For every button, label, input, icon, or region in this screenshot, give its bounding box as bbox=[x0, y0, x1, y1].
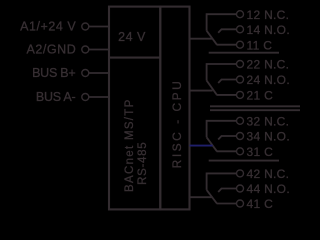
terminal 21 circle bbox=[237, 91, 244, 98]
svg-text:42 N.C.: 42 N.C. bbox=[247, 167, 290, 181]
terminal BUS A- circle bbox=[82, 94, 89, 101]
wire 21 C bbox=[217, 94, 237, 96]
svg-text:21 C: 21 C bbox=[247, 89, 274, 103]
switch arm K2 bbox=[207, 81, 217, 95]
terminal 31 circle bbox=[237, 148, 244, 155]
wire 31 C bbox=[217, 150, 237, 152]
wire drive K4 from CPU bbox=[190, 196, 213, 198]
svg-text:44 N.O.: 44 N.O. bbox=[247, 182, 290, 196]
svg-text:BUS A-: BUS A- bbox=[36, 90, 76, 104]
svg-text:12 N.C.: 12 N.C. bbox=[247, 8, 290, 22]
wire 11 C bbox=[217, 44, 237, 46]
terminal A2 circle bbox=[82, 46, 89, 53]
svg-text:BACnet MS/TP: BACnet MS/TP bbox=[124, 98, 136, 192]
terminal 34 circle bbox=[237, 133, 244, 140]
terminal 24 circle bbox=[237, 76, 244, 83]
terminal BUS B+ circle bbox=[82, 70, 89, 77]
wire drive K2 from CPU bbox=[190, 90, 213, 92]
terminal 41 circle bbox=[237, 200, 244, 207]
switch arm K3 bbox=[207, 137, 217, 151]
svg-text:24 V: 24 V bbox=[118, 30, 146, 44]
box U1 BACnet MS/TP RS-485 module outline bbox=[109, 7, 160, 210]
svg-text:11 C: 11 C bbox=[247, 38, 273, 52]
wire 14 N.O. with tick bbox=[218, 29, 236, 33]
svg-text:32 N.C.: 32 N.C. bbox=[247, 114, 290, 128]
wire A2 to box bbox=[89, 49, 109, 51]
svg-text:BUS B+: BUS B+ bbox=[32, 66, 75, 80]
switch arm K1 bbox=[207, 31, 217, 45]
wire BUS A- to box bbox=[89, 96, 109, 98]
terminal 11 circle bbox=[237, 41, 244, 48]
svg-text:RISC - CPU: RISC - CPU bbox=[170, 79, 184, 169]
terminal 42 circle bbox=[237, 170, 244, 177]
switch arm K4 bbox=[207, 190, 217, 204]
svg-text:A1/+24 V: A1/+24 V bbox=[20, 20, 76, 34]
svg-text:34 N.O.: 34 N.O. bbox=[247, 130, 290, 144]
wire 34 N.O. with tick bbox=[218, 136, 236, 140]
terminal 32 circle bbox=[237, 117, 244, 124]
separator double line bottom bbox=[210, 109, 300, 111]
svg-text:RS-485: RS-485 bbox=[137, 142, 149, 185]
svg-text:A2/GND: A2/GND bbox=[26, 43, 76, 57]
terminal 14 circle bbox=[237, 26, 244, 33]
relay K3 contacts bbox=[190, 117, 244, 155]
relay K2 contacts bbox=[190, 61, 244, 99]
separator double line top bbox=[210, 105, 300, 107]
svg-text:14 N.O.: 14 N.O. bbox=[247, 23, 290, 37]
divider 24V section bbox=[109, 57, 160, 59]
svg-text:41 C: 41 C bbox=[247, 197, 274, 211]
svg-text:22 N.C.: 22 N.C. bbox=[247, 58, 290, 72]
svg-text:31 C: 31 C bbox=[247, 145, 274, 159]
wire 32 N.C. with drop bbox=[207, 121, 237, 138]
separator line 3 bbox=[209, 160, 279, 162]
wire 24 N.O. with tick bbox=[218, 80, 236, 84]
terminal 12 circle bbox=[237, 11, 244, 18]
wire 22 N.C. with drop bbox=[207, 64, 237, 81]
wire drive K3 from CPU (blue) bbox=[190, 145, 213, 147]
wire drive K1 from CPU bbox=[190, 38, 213, 40]
svg-text:24 N.O.: 24 N.O. bbox=[247, 73, 290, 87]
terminal A1 circle bbox=[82, 23, 89, 30]
wire A1 to box bbox=[89, 26, 109, 28]
terminal 44 circle bbox=[237, 185, 244, 192]
wire BUS B+ to box bbox=[89, 72, 109, 74]
relay K4 contacts bbox=[190, 170, 244, 207]
wire 42 N.C. with drop bbox=[207, 173, 237, 190]
wire 41 C bbox=[217, 203, 237, 205]
relay K1 contacts bbox=[190, 11, 244, 49]
box U2 RISC-CPU bbox=[160, 7, 189, 210]
wire 44 N.O. with tick bbox=[218, 189, 236, 193]
wire 12 N.C. with drop bbox=[207, 14, 237, 31]
terminal 22 circle bbox=[237, 61, 244, 68]
separator line 1 bbox=[209, 52, 279, 54]
